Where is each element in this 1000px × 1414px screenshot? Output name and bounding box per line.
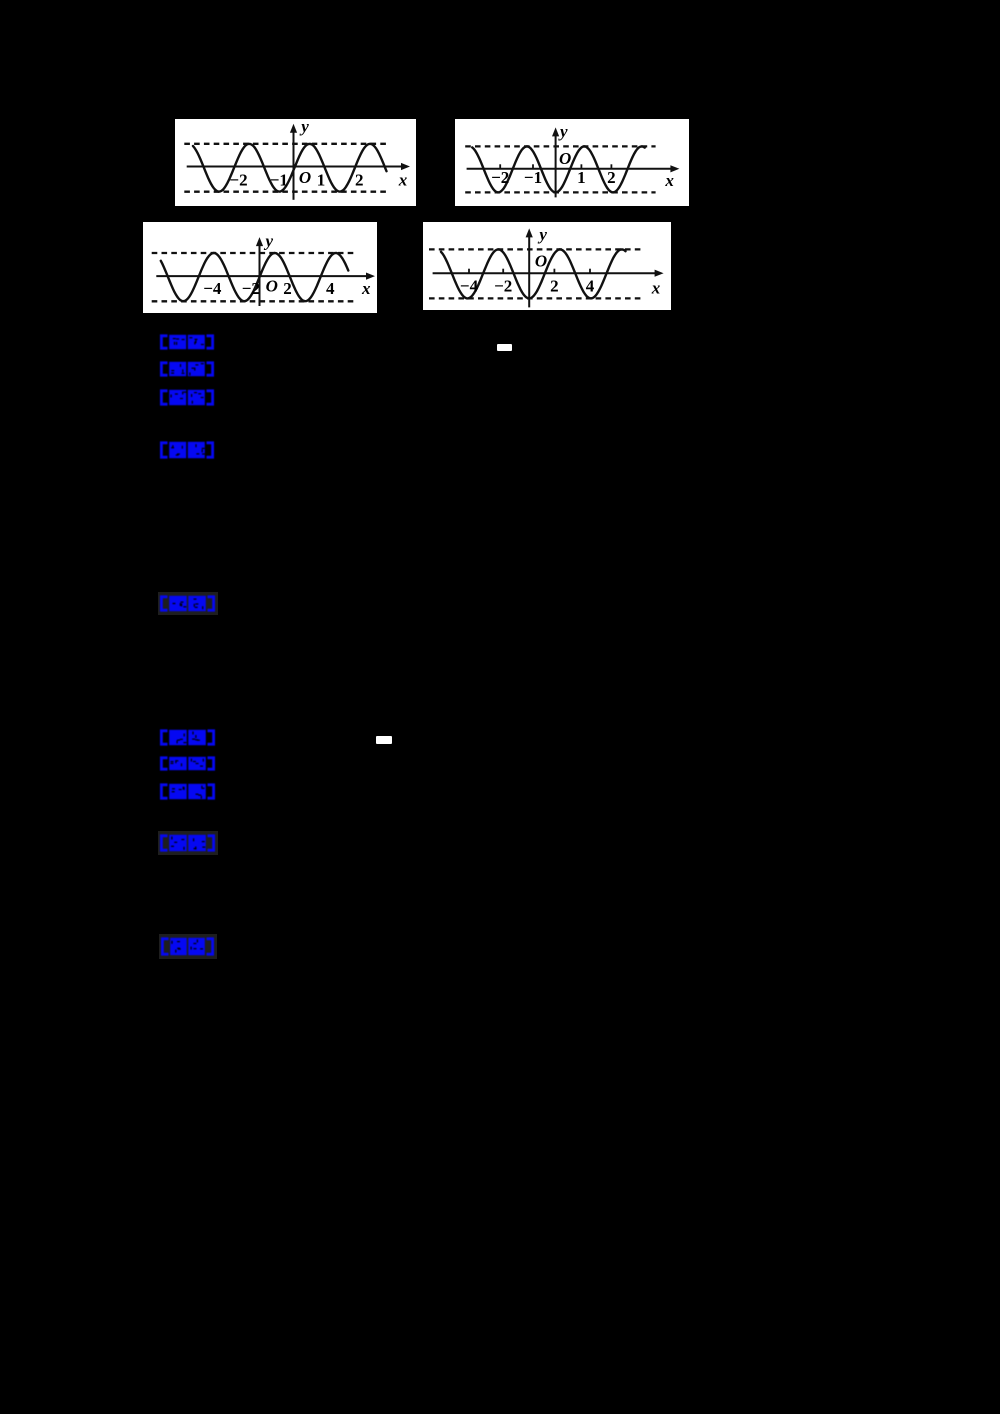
jpeg halo behind keypoint-2 [159, 934, 217, 959]
svg-text:−4: −4 [460, 277, 479, 296]
sine wave curve B [472, 146, 645, 192]
svg-text:4: 4 [326, 279, 335, 298]
blue bracket marker detail-2 [160, 834, 215, 852]
blue bracket marker knowledge-2 [160, 756, 215, 771]
blue bracket marker answer-2 [160, 729, 215, 746]
bottom dashed amplitude line D [429, 297, 641, 299]
blue bracket marker detail-1 [160, 441, 214, 459]
blue bracket marker analysis-1 [160, 389, 214, 406]
svg-text:4: 4 [586, 277, 595, 296]
jpeg halo behind keypoint-1 [158, 592, 218, 615]
svg-text:−4: −4 [203, 279, 222, 298]
top dashed amplitude line B [465, 145, 655, 147]
white formula dash 1 [497, 344, 512, 351]
blue bracket marker answer-1 [160, 334, 214, 350]
svg-text:−1: −1 [524, 168, 542, 187]
svg-text:y: y [299, 119, 309, 136]
blue bracket marker keypoint-1 [160, 595, 215, 612]
blue bracket marker knowledge-1 [160, 361, 214, 377]
svg-text:x: x [398, 171, 408, 190]
svg-text:2: 2 [355, 171, 364, 190]
svg-text:−2: −2 [491, 168, 509, 187]
graph panel B (white box) [455, 119, 689, 206]
blue bracket marker keypoint-2 [161, 937, 214, 956]
x-axis B [467, 168, 674, 170]
svg-text:y: y [537, 225, 547, 244]
graph panel A (white box) [175, 119, 416, 206]
x-axis C [156, 275, 369, 277]
top dashed amplitude line D [429, 248, 641, 250]
white formula dash 2 [376, 736, 392, 744]
y-axis B [555, 132, 557, 197]
svg-text:O: O [299, 168, 311, 187]
blue bracket marker analysis-2 [160, 783, 215, 800]
svg-text:1: 1 [317, 171, 326, 190]
svg-text:O: O [535, 252, 547, 271]
svg-text:1: 1 [577, 168, 586, 187]
axis tick marks B [499, 164, 501, 169]
graph panel C (white box) [143, 222, 377, 313]
y-axis D [528, 233, 530, 307]
sine wave curve D [441, 249, 626, 298]
svg-text:x: x [361, 279, 371, 298]
graph panel D (white box) [423, 222, 671, 310]
svg-text:y: y [264, 232, 274, 251]
bottom dashed amplitude line B [465, 191, 655, 193]
x-axis A [187, 166, 404, 168]
svg-text:−2: −2 [242, 279, 260, 298]
svg-text:y: y [558, 122, 568, 141]
svg-text:x: x [651, 279, 661, 298]
bottom dashed amplitude line A [184, 191, 389, 193]
svg-text:O: O [559, 149, 571, 168]
svg-text:2: 2 [607, 168, 616, 187]
top dashed amplitude line C [152, 252, 354, 254]
y-axis A [293, 129, 295, 200]
svg-text:2: 2 [550, 277, 559, 296]
svg-text:2: 2 [283, 279, 292, 298]
x-axis D [433, 272, 658, 274]
y-axis C [259, 242, 261, 306]
svg-text:−2: −2 [229, 171, 247, 190]
bottom dashed amplitude line C [152, 300, 354, 302]
svg-text:−2: −2 [494, 277, 512, 296]
sine wave curve A [193, 144, 387, 192]
svg-text:O: O [266, 277, 278, 296]
axis tick marks D [468, 269, 470, 274]
top dashed amplitude line A [184, 143, 389, 145]
svg-text:−1: −1 [270, 171, 288, 190]
svg-text:x: x [664, 171, 674, 190]
jpeg halo behind detail-2 [158, 831, 218, 855]
sine wave curve C [161, 253, 348, 301]
